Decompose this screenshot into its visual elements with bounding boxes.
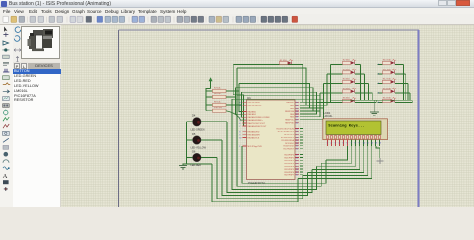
- chip U1 PIC16F877A: [247, 100, 296, 180]
- wire top band 0 to RB pin: [233, 65, 302, 103]
- svg-text:R2 330: R2 330: [343, 60, 351, 62]
- pin 29 RD6/PSP6: [295, 171, 299, 173]
- wire RC5 pin stub: [300, 142, 303, 144]
- svg-text:R13 330: R13 330: [383, 88, 392, 90]
- single pair on top wire: [233, 64, 302, 66]
- left col row 2: [324, 82, 343, 84]
- pin 25 RC6/TX/CK: [295, 145, 299, 147]
- svg-text:RB7/PGD: RB7/PGD: [285, 123, 294, 125]
- LCD pin 1: [327, 140, 329, 146]
- svg-text:Scanning Keys...: Scanning Keys...: [328, 124, 364, 129]
- LED R6D: [351, 99, 354, 102]
- svg-text:RE1/AN6/WR: RE1/AN6/WR: [248, 134, 261, 137]
- LCD pin 13: [375, 140, 377, 146]
- LCD pin 2: [331, 140, 333, 146]
- pin 1 MCLR/Vpp/THV: [243, 145, 247, 147]
- wire bottom band 3: [227, 122, 312, 193]
- resistor R12: [383, 80, 391, 83]
- wire RC7 pin stub: [300, 148, 303, 150]
- pin 5 RA3/AN3/VREF+: [243, 119, 247, 121]
- left col row 1: [327, 73, 343, 75]
- left col row 3: [320, 92, 343, 94]
- pin 10 RE2/AN7/CS: [243, 137, 247, 139]
- wire bottom band 6: [242, 146, 326, 183]
- pin 16 RC1/T1OSI/CCP2: [295, 130, 299, 132]
- svg-text:RA2/AN2/VREF-/CVREF: RA2/AN2/VREF-/CVREF: [248, 116, 271, 119]
- resistor R11: [383, 71, 391, 74]
- resistor R1: [280, 61, 288, 64]
- pin 15 RC0/T1OSO/T1CKI: [295, 127, 299, 129]
- wire top band 2 to RB pin: [239, 84, 310, 109]
- pin 39 RB6/PGC: [295, 119, 299, 121]
- pin 6 RA4/T0CKI/C1OUT: [243, 122, 247, 124]
- menu bar: [0, 8, 474, 14]
- svg-text:R6 330: R6 330: [343, 98, 351, 100]
- pin 36 RB3/PGM: [295, 110, 299, 112]
- pin 22 RD3/PSP3: [295, 162, 299, 164]
- svg-text:RC2/CCP1: RC2/CCP1: [284, 134, 295, 136]
- svg-text:R5 330: R5 330: [343, 88, 351, 90]
- svg-text:RA5/AN4/SS/C2OUT: RA5/AN4/SS/C2OUT: [248, 125, 268, 128]
- svg-text:LED-GREEN: LED-GREEN: [191, 128, 205, 131]
- svg-text:RD2/PSP2: RD2/PSP2: [284, 160, 295, 162]
- wire: band left joins: [238, 84, 240, 92]
- svg-text:RD1/PSP1: RD1/PSP1: [284, 157, 295, 159]
- resistor R13: [383, 90, 391, 93]
- pin 8 RE0/AN5/RD: [243, 131, 247, 133]
- wire LCD data 2: [317, 146, 356, 166]
- left tool strip: [0, 25, 13, 207]
- svg-text:RD5/PSP5: RD5/PSP5: [284, 169, 295, 171]
- animated LED D4 LED-GREEN: [187, 121, 193, 123]
- svg-text:R12 330: R12 330: [383, 79, 392, 81]
- LED R4D: [351, 80, 354, 83]
- svg-text:RA4/T0CKI/C1OUT: RA4/T0CKI/C1OUT: [248, 122, 266, 125]
- svg-text:R9 10k: R9 10k: [214, 101, 222, 103]
- svg-text:RB6/PGC: RB6/PGC: [285, 120, 294, 122]
- svg-text:LED-RED: LED-RED: [191, 164, 202, 167]
- svg-text:RC4/SDI/SDA: RC4/SDI/SDA: [281, 139, 294, 142]
- svg-text:RD6/PSP6: RD6/PSP6: [284, 172, 295, 174]
- pin 3 RA1/AN1: [243, 113, 247, 115]
- svg-text:PIC16F877A: PIC16F877A: [248, 181, 265, 185]
- pin 38 RB5: [295, 116, 299, 118]
- pin 4 RA2/AN2/VREF-/CVREF: [243, 116, 247, 118]
- toolbar: [0, 14, 474, 25]
- LED R5D: [351, 90, 354, 93]
- pin 30 RD7/PSP7: [295, 174, 299, 176]
- LED R10D: [391, 61, 394, 64]
- pin 20 RD1/PSP1: [295, 156, 299, 158]
- animated LED D5 LED-YELLOW: [187, 139, 193, 141]
- pin 17 RC2/CCP1: [295, 133, 299, 135]
- svg-text:RA0/AN0: RA0/AN0: [248, 110, 257, 113]
- LED R12D: [391, 80, 394, 83]
- svg-text:R4 330: R4 330: [343, 79, 351, 81]
- svg-text:RC7/RX/DT: RC7/RX/DT: [283, 149, 294, 151]
- LCD pin 14: [379, 140, 381, 146]
- pin 40 RB7/PGD: [295, 122, 299, 124]
- svg-text:U1: U1: [247, 96, 251, 100]
- pin 14 OSC2/CLKOUT: [243, 104, 247, 106]
- svg-text:A: A: [3, 173, 8, 180]
- right col row 1: [378, 73, 383, 75]
- svg-text:RC0/T1OSO/T1CKI: RC0/T1OSO/T1CKI: [276, 128, 294, 130]
- wire top band 6 to RB pin: [232, 99, 324, 120]
- svg-text:RB3/PGM: RB3/PGM: [285, 111, 294, 113]
- devices header: [13, 62, 61, 69]
- pin 27 RD4/PSP4: [295, 165, 299, 167]
- pin 2 RA0/AN0: [243, 110, 247, 112]
- cathode rail: [330, 99, 412, 101]
- svg-text:R3 330: R3 330: [343, 69, 351, 71]
- resistor R7: [206, 90, 213, 92]
- ground near LCD: [373, 100, 375, 111]
- LCD pin 3: [335, 140, 337, 146]
- wire RC2 pin stub: [300, 133, 303, 135]
- svg-text:R11 330: R11 330: [383, 69, 392, 71]
- wire top band 3 to RB pin: [236, 88, 314, 111]
- power terminal VCC arrow: [209, 77, 213, 81]
- svg-text:R14 330: R14 330: [383, 98, 392, 100]
- wire: dangling + cursor cross: [376, 146, 380, 160]
- wire LCD data 6: [298, 146, 372, 179]
- resistor R9: [206, 104, 213, 106]
- svg-text:RD0/PSP0: RD0/PSP0: [284, 154, 295, 156]
- resistor R14: [383, 99, 391, 102]
- svg-text:R10 330: R10 330: [383, 60, 392, 62]
- wire RD4 pin stub: [300, 165, 303, 167]
- pin 28 RD5/PSP5: [295, 168, 299, 170]
- animated LED D6 LED-RED: [187, 157, 193, 159]
- sheet border top: [119, 29, 420, 31]
- pin 35 RB2: [295, 107, 299, 109]
- right col row 3: [378, 92, 383, 94]
- svg-text:MCLR/Vpp/THV: MCLR/Vpp/THV: [248, 146, 263, 148]
- pin 24 RC5/SDO: [295, 142, 299, 144]
- pin 26 RC7/RX/DT: [295, 148, 299, 150]
- wire LCD data 0: [326, 146, 348, 160]
- wire bottom band 4: [232, 99, 317, 189]
- pin 21 RD2/PSP2: [295, 159, 299, 161]
- wire: riser 233.3: [233, 65, 246, 126]
- resistor R6: [343, 99, 351, 102]
- resistor R4: [343, 80, 351, 83]
- pin 19 RD0/PSP0: [295, 154, 299, 156]
- svg-text:LED-YELLOW: LED-YELLOW: [191, 147, 207, 150]
- svg-text:RD4/PSP4: RD4/PSP4: [284, 166, 295, 168]
- svg-text:RC3/SCK/SCL: RC3/SCK/SCL: [281, 137, 295, 139]
- wire LCD data 5: [303, 146, 368, 176]
- wire bottom band 5: [237, 68, 321, 186]
- svg-text:RA3/AN3/VREF+: RA3/AN3/VREF+: [248, 119, 264, 122]
- svg-text:OSC1/CLKIN: OSC1/CLKIN: [248, 102, 260, 104]
- wire RD2 pin stub: [300, 159, 303, 161]
- LED R2D: [351, 61, 354, 64]
- LCD pin 9: [359, 140, 361, 146]
- resistor R10: [206, 110, 213, 112]
- resistor R2: [343, 61, 351, 64]
- LCD pin 8: [355, 140, 357, 146]
- wire RD7 pin stub: [300, 174, 303, 176]
- svg-text:R10 10k: R10 10k: [214, 107, 223, 109]
- schematic canvas: [61, 25, 474, 207]
- wire LCD data 1: [321, 146, 351, 163]
- wire top band 5 to RB pin: [237, 96, 320, 117]
- svg-text:LM016L: LM016L: [324, 115, 334, 118]
- pin 18 RC3/SCK/SCL: [295, 136, 299, 138]
- left col row 0: [331, 63, 343, 65]
- rotate controls column: [13, 25, 21, 69]
- LED R14D: [391, 99, 394, 102]
- wire LCD data 4: [307, 146, 363, 173]
- svg-text:RD7/PSP7: RD7/PSP7: [284, 175, 295, 177]
- wire RC3 pin stub: [300, 136, 303, 138]
- ground left: [179, 165, 187, 167]
- pin 23 RC4/SDI/SDA: [295, 139, 299, 141]
- bank right wires: [226, 91, 247, 111]
- right col row 4: [378, 101, 383, 103]
- title bar: [0, 0, 474, 8]
- LCD pin 4: [339, 140, 341, 146]
- LED R11D: [391, 71, 394, 74]
- resistor R3: [343, 71, 351, 74]
- svg-text:OSC2/CLKOUT: OSC2/CLKOUT: [248, 105, 263, 107]
- wire RC6 pin stub: [300, 145, 303, 147]
- part preview panel: [21, 26, 60, 59]
- pin 9 RE1/AN6/WR: [243, 134, 247, 136]
- resistor R5: [343, 90, 351, 93]
- resistor R8: [206, 96, 213, 98]
- LCD pin 11: [367, 140, 369, 146]
- svg-text:RC1/T1OSI/CCP2: RC1/T1OSI/CCP2: [278, 131, 295, 133]
- LED R3D: [351, 71, 354, 74]
- LCD pin 7: [351, 140, 353, 146]
- wire RC1 pin stub: [300, 130, 303, 132]
- resistor R10: [383, 61, 391, 64]
- svg-text:R8 10k: R8 10k: [214, 93, 222, 95]
- svg-text:RD3/PSP3: RD3/PSP3: [284, 163, 295, 165]
- pin 34 RB1: [295, 104, 299, 106]
- LED R13D: [391, 90, 394, 93]
- wire bottom band 0: [212, 164, 298, 202]
- sheet border left: [118, 30, 120, 207]
- LED right wires: [201, 121, 227, 123]
- wire bottom band 1: [217, 158, 303, 199]
- svg-text:RA1/AN1: RA1/AN1: [248, 113, 257, 116]
- wire RD5 pin stub: [300, 168, 303, 170]
- svg-text:R1 330: R1 330: [280, 60, 288, 62]
- right col row 0: [378, 63, 383, 65]
- wire RC0 pin stub: [300, 127, 303, 129]
- svg-text:RC6/TX/CK: RC6/TX/CK: [284, 146, 295, 148]
- wire LCD data 3: [312, 146, 360, 169]
- sheet border right: [418, 30, 420, 207]
- pin 33 RB0/INT: [295, 101, 299, 103]
- resistor bank left rail: [206, 89, 211, 111]
- svg-text:R7 10k: R7 10k: [214, 87, 222, 89]
- svg-text:RE2/AN7/CS: RE2/AN7/CS: [248, 136, 260, 139]
- pin 7 RA5/AN4/SS/C2OUT: [243, 125, 247, 127]
- svg-text:RC5/SDO: RC5/SDO: [285, 143, 294, 145]
- left col row 4: [317, 101, 343, 103]
- wire RC4 pin stub: [300, 139, 303, 141]
- wire RD6 pin stub: [300, 171, 303, 173]
- svg-text:D5: D5: [192, 132, 196, 136]
- pin 37 RB4: [295, 113, 299, 115]
- LED left rail: [187, 122, 213, 164]
- pin 13 OSC1/CLKIN: [243, 101, 247, 103]
- wire top band 1 to RB pin: [237, 68, 306, 105]
- LCD pin 10: [363, 140, 365, 146]
- svg-text:RB0/INT: RB0/INT: [286, 102, 294, 104]
- svg-text:D6: D6: [192, 149, 196, 153]
- LED R1D: [288, 61, 291, 64]
- wire bottom band 2: [222, 140, 307, 196]
- wire RD3 pin stub: [300, 162, 303, 164]
- svg-text:RE0/AN5/RD: RE0/AN5/RD: [248, 131, 260, 134]
- device list: [13, 69, 61, 207]
- LCD pin 12: [371, 140, 373, 146]
- wire RD1 pin stub: [300, 156, 303, 158]
- wire top band 4 to RB pin: [242, 92, 317, 114]
- wire RD0 pin stub: [300, 154, 303, 156]
- svg-text:D4: D4: [192, 114, 196, 118]
- LCD pin 6: [347, 140, 349, 146]
- LCD pin 5: [343, 140, 345, 146]
- right col row 2: [378, 82, 383, 84]
